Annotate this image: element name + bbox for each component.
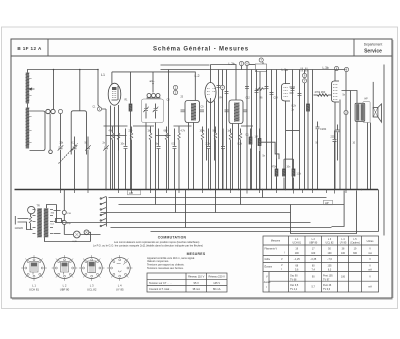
mains plug <box>15 216 22 225</box>
resistor r118 <box>117 127 120 190</box>
capacitor on x226 <box>225 92 229 94</box>
svg-text:UBF 80: UBF 80 <box>60 288 70 292</box>
svg-text:TV 6,6: TV 6,6 <box>323 288 331 291</box>
capacitor on x292 <box>291 89 295 91</box>
svg-text:Le P.O. ou le G.O. les contact: Le P.O. ou le G.O. les contacts marqués … <box>93 243 203 247</box>
wire osc drop <box>152 72 154 93</box>
wire tube L2 riser <box>210 65 212 83</box>
wire distribution y130 <box>286 130 300 132</box>
bus stubs below <box>61 190 347 194</box>
test point circles top pair <box>239 61 243 65</box>
svg-text:UBF 80: UBF 80 <box>309 242 318 245</box>
wire T3 drops <box>357 121 371 189</box>
below-bus wire y231 <box>151 231 379 233</box>
antenna coil A1 <box>26 73 30 104</box>
svg-text:UCH 81: UCH 81 <box>292 242 301 245</box>
capacitor c125 <box>124 129 128 190</box>
resistor R6 horizontal <box>256 88 265 90</box>
test point circle x261 <box>259 58 263 62</box>
header right box divider <box>353 39 355 56</box>
wire y64 left seg <box>161 64 210 66</box>
wire drop x290b <box>290 205 292 232</box>
trimmer pot P2 <box>51 109 55 113</box>
variable cap CV6 <box>153 104 159 119</box>
svg-text:L.3a: L.3a <box>282 68 288 72</box>
svg-text:mA: mA <box>368 252 372 255</box>
resistor r283 dark <box>283 159 286 189</box>
svg-text:L.3b: L.3b <box>323 66 329 70</box>
resistor r250 dark <box>249 129 252 190</box>
svg-text:UCL 82: UCL 82 <box>87 288 97 292</box>
svg-text:Grille: Grille <box>265 258 271 261</box>
svg-text:mA: mA <box>368 286 372 289</box>
series caps in bus <box>301 68 307 72</box>
dial lamp E2 <box>84 230 89 235</box>
wire tube L2 pins <box>207 101 215 190</box>
svg-text:mA: mA <box>368 269 372 272</box>
svg-text:100: 100 <box>295 252 300 255</box>
svg-text:1M: 1M <box>148 131 151 133</box>
dial lamp E1 <box>73 231 80 238</box>
wire vert x256 <box>256 70 258 190</box>
svg-text:6,3V: 6,3V <box>73 241 78 243</box>
arrow tap A1 <box>29 88 34 90</box>
variable cap CV3 <box>85 137 91 190</box>
border frame <box>11 39 392 298</box>
test point circle x336 <box>334 66 338 70</box>
svg-text:TV 4,2: TV 4,2 <box>290 288 298 291</box>
resistor r166 <box>165 127 168 190</box>
test point circle x345.5 mid <box>344 110 348 114</box>
wire cluster link1 <box>261 142 279 159</box>
wire vert x60 <box>60 114 62 147</box>
oscillator coil cluster <box>147 94 161 99</box>
below-bus wire y204 <box>119 204 345 206</box>
svg-text:AM: AM <box>129 191 133 195</box>
svg-text:Tensions par rapport au ch: Tensions par rapport au châssis. <box>147 263 185 267</box>
wire coil A1 top <box>27 70 29 73</box>
resistor r259 dark <box>258 129 261 190</box>
wire y64 right seg <box>249 64 255 66</box>
svg-text:Schéma Général - Mesures: Schéma Général - Mesures <box>153 47 249 53</box>
capacitor c222m <box>221 129 225 190</box>
wire vert x304 <box>304 70 306 190</box>
wire vert x222 <box>222 70 224 190</box>
wire vert x266 <box>266 70 268 190</box>
svg-text:MESURES: MESURES <box>187 252 206 256</box>
svg-text:COMMUTATION: COMMUTATION <box>158 236 187 240</box>
capacitor c174 <box>173 129 177 190</box>
svg-text:TV 97: TV 97 <box>323 278 330 281</box>
resistor R10 horizontal <box>314 94 332 96</box>
terminal circle T1 <box>49 150 53 154</box>
tube base L3 UCL82 <box>79 255 105 281</box>
wire drop x343b <box>332 191 345 227</box>
svg-text:a1~: a1~ <box>150 79 155 83</box>
tube base L4 UY85 <box>107 255 133 281</box>
resistor R1 dark <box>129 72 132 190</box>
svg-text:L1: L1 <box>101 73 105 77</box>
capacitor on x218 <box>217 86 221 88</box>
capacitor on x271 <box>270 93 274 95</box>
capacitor on x299 <box>298 94 302 96</box>
wire tube L3b drops <box>335 100 340 190</box>
wire vert x299 <box>299 70 301 190</box>
test point circles osc <box>173 85 177 89</box>
svg-text:105: 105 <box>328 264 333 267</box>
wire right x383.5 <box>383 65 385 236</box>
svg-text:−7,6: −7,6 <box>327 258 332 261</box>
resistor r202 <box>201 127 204 190</box>
svg-text:100: 100 <box>311 252 316 255</box>
svg-text:Valeurs moyennes.: Valeurs moyennes. <box>147 259 169 263</box>
svg-text:TR: TR <box>37 205 40 208</box>
junction dots top-left <box>53 69 55 71</box>
rectifier tube L4 circle <box>28 206 35 213</box>
wire T3 riser <box>342 91 358 104</box>
wire tube L1 pins down <box>111 105 119 190</box>
capacitor c334m <box>333 131 337 190</box>
wire drop x240b <box>240 190 242 205</box>
wire vert x226 <box>226 70 228 190</box>
svg-text:100: 100 <box>341 252 346 255</box>
speaker HP <box>373 104 381 122</box>
wire power links <box>23 205 101 242</box>
lamp crosses <box>75 231 89 237</box>
svg-text:Écrans: Écrans <box>265 266 273 269</box>
wire pot down <box>49 114 51 150</box>
wire vert x271 <box>271 70 273 190</box>
below-bus wire y222 <box>61 222 311 224</box>
test circle x60 <box>58 109 62 113</box>
below-bus wire y227 <box>111 227 332 229</box>
electrolytic C30b <box>62 221 66 225</box>
resistor r150b <box>149 127 152 190</box>
wire drop x155b <box>155 190 157 205</box>
test point circle near L1 <box>97 107 101 111</box>
svg-text:300: 300 <box>353 252 358 255</box>
antenna coil A2 <box>26 108 30 149</box>
svg-text:C12: C12 <box>246 98 251 100</box>
svg-text:Courant H.T. total . .: Courant H.T. total . . <box>149 287 172 291</box>
wire coil link <box>27 104 29 108</box>
coil taps <box>29 79 32 143</box>
svg-text:UY 85: UY 85 <box>116 288 124 292</box>
svg-text:C20b: C20b <box>320 127 327 131</box>
wire vert x246.5 <box>246 66 248 190</box>
below-bus wire y197 <box>109 197 327 199</box>
variable cap CV4 <box>102 109 109 190</box>
switch cluster S1 <box>100 197 106 227</box>
gang link diagonal <box>59 144 78 164</box>
variable cap CV2 <box>72 137 78 190</box>
capacitor on x266 <box>265 87 269 89</box>
junction dot osc <box>152 83 154 85</box>
variable cap CV5 <box>143 104 149 119</box>
output transformer T3 <box>355 103 365 121</box>
wire bus drop x97.5 <box>98 70 100 107</box>
IF transformer T1 <box>181 101 205 123</box>
wire tp261 stems <box>260 62 263 189</box>
chassis ground bus <box>15 189 379 191</box>
svg-text:Pent 46: Pent 46 <box>323 284 332 287</box>
wire vert x292 <box>292 70 294 190</box>
label box lower right <box>324 200 333 205</box>
svg-text:L.2: L.2 <box>195 74 200 78</box>
svg-text:UCH 81: UCH 81 <box>29 288 39 292</box>
resistor r215 <box>214 127 217 190</box>
svg-text:100: 100 <box>328 252 333 255</box>
svg-text:Unités: Unités <box>367 240 375 243</box>
resistor r230 <box>229 129 232 190</box>
loop wire box around A2 <box>30 111 46 151</box>
label box lower left <box>128 190 141 195</box>
svg-text:(Cadres): (Cadres) <box>350 242 360 245</box>
svg-text:Tension sur C7 . . . .: Tension sur C7 . . . . <box>149 281 172 285</box>
svg-text:TV 68: TV 68 <box>290 278 297 281</box>
svg-text:UY 85: UY 85 <box>340 242 347 245</box>
value labels row <box>60 131 356 176</box>
wire L3a plate stubs <box>290 87 296 93</box>
svg-text:80 mA: 80 mA <box>213 287 221 291</box>
big measurement table <box>263 236 379 292</box>
svg-text:Anode: Anode <box>264 281 271 284</box>
wire vert x276 <box>276 70 278 190</box>
power transformer TR1 <box>33 208 54 237</box>
wire vert x345.5 <box>345 72 347 190</box>
svg-text:145 V: 145 V <box>213 281 220 285</box>
below-bus wire y212 <box>101 212 291 214</box>
wire tp stems <box>242 66 248 70</box>
resistor r293 dark <box>292 159 295 189</box>
test point circle x222 <box>220 85 224 89</box>
wire distribution y125 <box>104 125 254 127</box>
tube L2 UBF80 <box>205 83 216 103</box>
resistor r112 <box>111 127 114 190</box>
wire tube L3b riser <box>334 70 336 82</box>
resistor r240 <box>239 129 242 190</box>
svg-text:100k: 100k <box>200 131 206 133</box>
svg-text:38 mA: 38 mA <box>192 287 200 291</box>
shielded box x260 <box>255 64 266 72</box>
svg-text:106: 106 <box>341 276 346 279</box>
svg-text:470k: 470k <box>272 167 278 169</box>
wire T2 riser <box>211 65 237 101</box>
capacitor on x256 <box>255 91 259 93</box>
wire tube L3a riser <box>285 70 287 85</box>
capacitor c158 <box>157 129 161 190</box>
wire drop x185b <box>185 190 187 228</box>
small table <box>147 273 227 292</box>
svg-text:95 V: 95 V <box>194 281 200 285</box>
secondary loop wire <box>363 102 370 123</box>
wire top bus left <box>27 69 98 71</box>
variable cap CV1 <box>58 145 64 189</box>
header band separator <box>11 55 392 57</box>
svg-text:110/220: 110/220 <box>15 227 24 230</box>
svg-text:HP: HP <box>365 99 369 101</box>
fuse box <box>56 219 62 223</box>
svg-text:1M: 1M <box>255 137 258 139</box>
svg-text:470k 360: 470k 360 <box>315 90 326 94</box>
wire osc box drops <box>146 123 156 190</box>
wire vert x350 <box>350 91 352 190</box>
wire speaker top <box>372 82 374 108</box>
capacitor c208 <box>207 129 211 190</box>
svg-text:Service: Service <box>364 49 382 55</box>
tube L3b output <box>332 81 340 102</box>
wire vert x218 <box>218 70 220 190</box>
tube base L1 UCH81 <box>21 255 47 281</box>
svg-text:−1,25: −1,25 <box>294 258 301 261</box>
wire drop x378b <box>378 190 380 232</box>
svg-text:Osc 9,5: Osc 9,5 <box>290 284 299 287</box>
wire pots riser <box>53 70 55 110</box>
svg-text:Mesures: Mesures <box>271 240 281 243</box>
wire tube L3a drop <box>285 101 287 190</box>
wire vert x251 <box>251 70 253 190</box>
svg-text:B 1F 12 A: B 1F 12 A <box>17 46 42 51</box>
wire gang riser <box>79 70 81 111</box>
wire plate to IF1 <box>112 72 195 101</box>
tube base L2 UBF80 <box>52 255 78 281</box>
resistor R7 dark vertical <box>307 70 310 190</box>
resistor r178 <box>178 127 181 190</box>
big table header texts <box>271 238 374 245</box>
wire drop x262b <box>262 190 264 198</box>
wire vert x168 <box>168 70 170 190</box>
svg-text:Appareil contrôlé vers 110: Appareil contrôlé vers 110 m, sans signa… <box>147 256 195 260</box>
svg-text:HP: HP <box>325 201 329 205</box>
capacitor c337 <box>336 125 340 161</box>
svg-text:Réseau 110 V: Réseau 110 V <box>188 275 205 279</box>
svg-text:Osc 90: Osc 90 <box>290 274 298 277</box>
svg-text:UCL 82: UCL 82 <box>325 242 334 245</box>
svg-text:Tensions mesurées aux borne: Tensions mesurées aux bornes. <box>147 266 184 270</box>
wire T1 drops <box>189 123 194 190</box>
svg-text:L.2b: L.2b <box>229 62 235 66</box>
resistor under L4 <box>29 214 32 227</box>
wire drop x356b <box>291 191 357 234</box>
svg-text:−0,35: −0,35 <box>310 258 317 261</box>
resistor r276 dark <box>275 159 278 190</box>
upper scatter labels <box>93 95 369 112</box>
resistor r131 <box>130 127 133 190</box>
wire top bus right <box>161 69 346 71</box>
wire vert x312 <box>312 70 314 190</box>
big table row texts <box>264 248 372 291</box>
svg-text:Réseau 220 V: Réseau 220 V <box>208 275 225 279</box>
wire drop x215b <box>215 190 217 213</box>
test point circle x346 <box>344 67 348 71</box>
tube L3a triode <box>282 84 291 102</box>
svg-text:Pent 105: Pent 105 <box>323 274 333 277</box>
svg-text:Filaments V: Filaments V <box>265 248 278 251</box>
oscillator block box <box>142 99 164 123</box>
wire T2 drops <box>233 124 239 190</box>
capacitor C20b <box>316 122 320 190</box>
wire tube L1 riser <box>111 72 113 84</box>
test point circles x304 <box>302 73 306 77</box>
electrolytic C30a <box>62 211 66 215</box>
wire electro stems <box>63 190 65 235</box>
tube L1 UCH81 <box>108 83 121 105</box>
svg-text:Département: Département <box>364 43 383 47</box>
IF transformer T2 <box>225 100 248 124</box>
wire distribution y135 <box>106 135 171 137</box>
wire cluster link2 <box>284 158 293 160</box>
wire drop x175b <box>175 190 177 213</box>
header left box divider <box>47 39 49 56</box>
svg-text:Les commutateurs sont repré: Les commutateurs sont représentés en pos… <box>114 240 199 244</box>
svg-text:C14: C14 <box>274 98 279 100</box>
tuning gang outline <box>71 111 86 155</box>
capacitor on x246.5 <box>245 87 249 89</box>
bus junction dots <box>60 189 363 191</box>
trimmer pot P1 <box>46 109 50 113</box>
